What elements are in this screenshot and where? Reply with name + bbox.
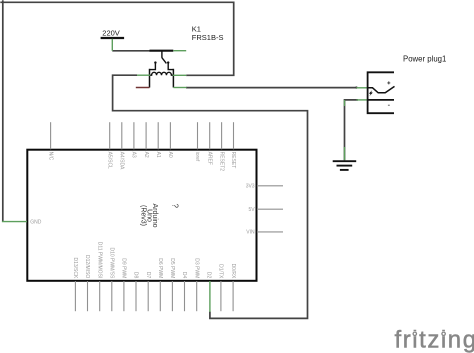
Arduino U1 body bbox=[27, 150, 256, 281]
svg-text:VIN: VIN bbox=[246, 230, 255, 236]
svg-text:D10 PWM/SS: D10 PWM/SS bbox=[109, 247, 115, 279]
svg-text:D1/TX: D1/TX bbox=[218, 264, 224, 279]
power symbol 220V bar bbox=[101, 37, 125, 39]
svg-text:D0/RX: D0/RX bbox=[230, 264, 236, 279]
pin power plug - (green) bbox=[357, 99, 368, 101]
wire relay NO contact to power plug + bbox=[186, 87, 356, 89]
svg-text:AREF: AREF bbox=[206, 152, 212, 165]
pin relay NC bottom (red, unconnected stub) bbox=[136, 87, 150, 89]
power plug plus mark bbox=[387, 81, 390, 84]
pin relay coil right (green) bbox=[173, 74, 187, 76]
wire 220V to relay common bbox=[112, 50, 150, 52]
svg-text:D2: D2 bbox=[206, 272, 212, 279]
power plug minus mark bbox=[388, 104, 390, 106]
relay left post bbox=[149, 69, 151, 88]
pin GND (green, connected) bbox=[2, 221, 27, 223]
svg-text:Power plug1: Power plug1 bbox=[403, 54, 446, 63]
wire GND top horizontal bbox=[0, 1, 233, 3]
relay coil arcs bbox=[150, 72, 174, 75]
pins Arduino top row bbox=[51, 122, 234, 149]
svg-text:D6 PWM: D6 PWM bbox=[157, 258, 163, 278]
ground symbol bbox=[333, 161, 357, 170]
pins Arduino right column bbox=[257, 186, 283, 232]
labels Arduino right pins bbox=[246, 184, 256, 236]
pin power plug + (green) bbox=[356, 87, 367, 89]
svg-text:A1: A1 bbox=[155, 152, 161, 158]
svg-text:RESET: RESET bbox=[230, 152, 236, 169]
svg-text:D4: D4 bbox=[181, 272, 187, 279]
pin relay NO bottom (green) bbox=[173, 87, 186, 89]
svg-text:A3: A3 bbox=[131, 152, 137, 158]
svg-text:fritzing: fritzing bbox=[395, 327, 474, 353]
pin D2 (green, connected) bbox=[209, 281, 211, 312]
relay contact dot NC bbox=[154, 61, 156, 63]
svg-text:A0: A0 bbox=[167, 152, 173, 158]
svg-text:D3 PWM: D3 PWM bbox=[193, 258, 199, 278]
svg-text:A2: A2 bbox=[143, 152, 149, 158]
pin relay coil left (green) bbox=[137, 74, 150, 76]
svg-text:D8: D8 bbox=[133, 272, 139, 279]
svg-text:GND: GND bbox=[30, 219, 42, 225]
relay switch stem bbox=[161, 51, 163, 58]
pin relay common (green, right stub) bbox=[173, 50, 186, 52]
svg-text:RESET2: RESET2 bbox=[218, 152, 224, 172]
svg-text:D13/SCK: D13/SCK bbox=[72, 257, 78, 279]
relay right post bbox=[172, 69, 174, 88]
labels Arduino top pins bbox=[47, 152, 236, 172]
wire junction dot at plug + pin bbox=[355, 86, 357, 88]
wire right vertical down to relay coil bbox=[186, 2, 234, 76]
svg-text:D12/MISO: D12/MISO bbox=[84, 255, 90, 278]
svg-text:FRS1B-S: FRS1B-S bbox=[192, 33, 224, 42]
relay switch blade bbox=[162, 58, 167, 64]
svg-text:D7: D7 bbox=[145, 272, 151, 279]
svg-text:3V3: 3V3 bbox=[246, 184, 255, 190]
pin 220V (green, connected) bbox=[111, 39, 113, 51]
svg-text:D5 PWM: D5 PWM bbox=[169, 258, 175, 278]
svg-text:N/C: N/C bbox=[47, 152, 53, 161]
svg-text:5V: 5V bbox=[248, 207, 255, 213]
relay NO contact leg bbox=[168, 63, 173, 70]
wire green end near ground bbox=[344, 147, 346, 160]
fritzing logo i-dot rings bbox=[412, 331, 417, 336]
svg-text:ioref: ioref bbox=[194, 152, 200, 162]
wire plug minus to ground bbox=[345, 100, 359, 160]
relay contact dot NO bbox=[167, 61, 169, 63]
wire D2 loop: relay coil left, down, across, down right side, to D2 pin bbox=[113, 75, 308, 318]
svg-text:A5/SCL: A5/SCL bbox=[106, 152, 112, 169]
svg-text:A4/SDA: A4/SDA bbox=[119, 152, 125, 170]
power plug lightning bolt bbox=[369, 90, 373, 96]
relay NC contact leg bbox=[150, 63, 156, 70]
relay K1 common terminal bar bbox=[150, 50, 174, 52]
svg-text:K1: K1 bbox=[192, 24, 201, 33]
svg-text:220V: 220V bbox=[102, 29, 120, 38]
svg-text:D11 PWM/MOSI: D11 PWM/MOSI bbox=[96, 242, 102, 279]
power plug1 body outline bbox=[368, 72, 394, 113]
labels Arduino bottom pins bbox=[72, 242, 236, 279]
svg-text:?: ? bbox=[171, 204, 180, 209]
wire green end near plug bbox=[344, 100, 346, 106]
wire GND left vertical bbox=[2, 0, 4, 221]
pins Arduino bottom row bbox=[75, 281, 233, 311]
power plug jack curve bbox=[368, 86, 395, 92]
svg-text:D9 PWM: D9 PWM bbox=[121, 258, 127, 278]
